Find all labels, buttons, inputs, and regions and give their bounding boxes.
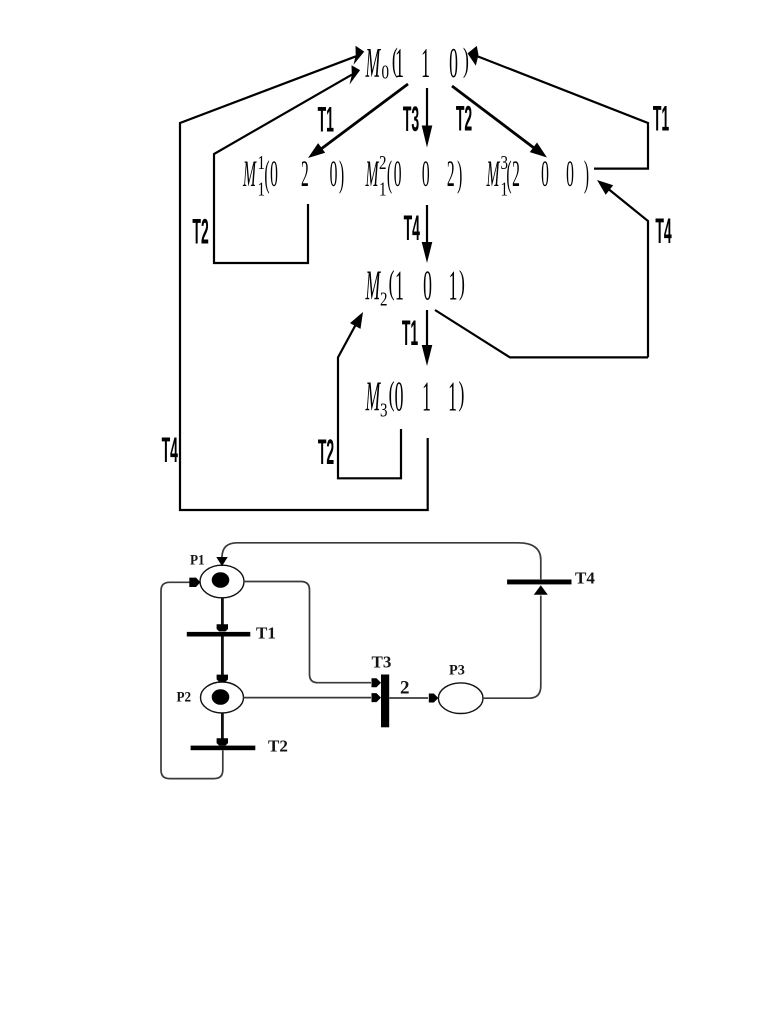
svg-text:1: 1: [422, 373, 431, 420]
svg-text:T2: T2: [192, 212, 208, 251]
wire M2 to right loop (T4): [435, 310, 648, 357]
arc P3 to T4 (right then up): [483, 596, 541, 699]
svg-text:(: (: [389, 374, 395, 412]
wire T1 loop M1^3 to M0: [468, 46, 649, 169]
arc P2 to T2: [221, 713, 224, 740]
svg-text:3: 3: [380, 398, 388, 421]
arc P1 to T3 (right then down): [244, 582, 371, 683]
arrowhead into T3 upper: [372, 678, 382, 687]
svg-text:T3: T3: [372, 653, 392, 672]
svg-text:1: 1: [395, 262, 404, 309]
arrowhead into P1 top: [216, 557, 227, 566]
svg-text:T4: T4: [655, 211, 671, 250]
svg-text:): ): [459, 374, 465, 412]
arc T2 to P1 (left loop): [161, 582, 223, 778]
node M2 (1 0 1): [365, 262, 465, 310]
svg-text:M: M: [365, 373, 381, 420]
arrowhead into T2: [217, 738, 228, 745]
svg-text:1: 1: [448, 373, 457, 420]
svg-text:): ): [459, 263, 465, 301]
arrowhead into P1 left: [189, 578, 200, 587]
svg-text:T3: T3: [403, 99, 419, 138]
svg-text:M: M: [242, 155, 256, 195]
place P2: [201, 682, 244, 713]
wire T1 edge M2 to M3: [422, 310, 433, 366]
svg-text:0: 0: [395, 373, 404, 420]
svg-text:P2: P2: [177, 689, 192, 706]
transition T2 bar: [191, 746, 256, 751]
svg-text:): ): [584, 155, 589, 195]
node M0 (1 1 0): [365, 39, 469, 86]
svg-text:T2: T2: [268, 737, 288, 756]
svg-text:(: (: [387, 155, 392, 195]
svg-text:1: 1: [258, 177, 265, 200]
svg-text:(: (: [506, 155, 511, 195]
svg-text:1: 1: [395, 39, 404, 86]
svg-text:T4: T4: [404, 208, 420, 247]
arc T1 to P2: [221, 637, 224, 677]
wire T2 edge M0 to M1^3: [452, 86, 547, 158]
svg-text:): ): [339, 155, 344, 195]
svg-text:): ): [457, 155, 462, 195]
svg-text:T1: T1: [318, 100, 334, 139]
node M1^3 (2 0 0): [486, 151, 589, 200]
arrowhead into T3 lower: [372, 693, 382, 702]
node M3 (0 1 1): [365, 373, 464, 421]
svg-text:M: M: [365, 39, 381, 86]
arc P1 to T1: [221, 598, 224, 626]
wire T2 loop M1^1 back to M0: [214, 65, 360, 263]
svg-text:M: M: [365, 262, 381, 309]
svg-text:T2: T2: [318, 432, 334, 471]
wire T4 edge M1^2 to M2: [422, 205, 433, 263]
arc T4 to P1 (top curve): [222, 543, 541, 580]
node M1^1 (0 2 0): [242, 151, 344, 200]
svg-text:0: 0: [422, 155, 430, 195]
svg-text:T1: T1: [402, 313, 418, 352]
svg-text:1: 1: [449, 262, 458, 309]
svg-text:0: 0: [423, 262, 432, 309]
svg-text:1: 1: [258, 151, 265, 174]
svg-text:0: 0: [566, 155, 574, 195]
wire T4 into M1^3 from lower right: [597, 180, 648, 357]
svg-text:0: 0: [330, 155, 338, 195]
arc T3 to P3: [389, 697, 428, 699]
svg-text:T4: T4: [575, 569, 595, 588]
svg-text:2: 2: [379, 151, 386, 174]
svg-text:M: M: [486, 155, 500, 195]
svg-text:2: 2: [301, 155, 309, 195]
svg-text:0: 0: [270, 155, 278, 195]
svg-text:M: M: [365, 155, 379, 195]
svg-text:0: 0: [382, 60, 390, 83]
arrowhead into P3: [429, 694, 439, 703]
svg-text:T1: T1: [653, 99, 669, 138]
svg-text:T2: T2: [456, 99, 472, 138]
svg-text:(: (: [264, 155, 269, 195]
svg-text:0: 0: [394, 155, 402, 195]
svg-text:T1: T1: [256, 624, 276, 643]
wire T1 edge M0 to M1^1: [308, 84, 408, 158]
svg-text:P1: P1: [190, 552, 205, 569]
svg-text:2: 2: [380, 287, 387, 310]
svg-text:0: 0: [449, 39, 458, 86]
svg-text:2: 2: [512, 155, 520, 195]
svg-text:2: 2: [400, 678, 410, 699]
arrowhead into T4: [534, 585, 548, 595]
place P1: [200, 565, 244, 598]
wire T3 edge M0 to M1^2: [422, 88, 433, 148]
node M1^2 (0 0 2): [365, 151, 462, 200]
transition T4 bar: [507, 580, 571, 585]
svg-text:P3: P3: [449, 662, 465, 678]
svg-text:0: 0: [541, 155, 549, 195]
svg-text:(: (: [389, 263, 395, 301]
arc P2 to T3: [244, 697, 372, 699]
svg-text:1: 1: [379, 177, 386, 200]
transition T1 bar: [187, 632, 251, 637]
svg-text:T4: T4: [162, 430, 178, 469]
svg-text:): ): [463, 41, 469, 79]
wire T2 loop M3 back to M2: [338, 312, 401, 478]
svg-text:2: 2: [447, 155, 455, 195]
wire T4 big loop M3 back to M0: [180, 46, 428, 510]
arrowhead into T1: [217, 624, 228, 631]
transition T3 bar: [381, 675, 389, 728]
place P3: [438, 683, 483, 714]
arrowhead into P2: [217, 675, 228, 682]
svg-text:1: 1: [421, 39, 430, 86]
